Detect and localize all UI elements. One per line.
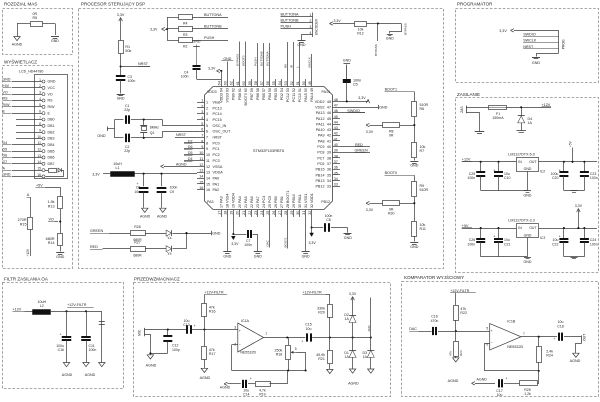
- svg-text:20: 20: [238, 204, 242, 208]
- svg-text:29: 29: [290, 211, 294, 215]
- svg-text:14: 14: [37, 160, 41, 164]
- svg-text:1: 1: [206, 100, 208, 104]
- svg-text:55: 55: [272, 81, 276, 85]
- svg-text:100n: 100n: [590, 176, 598, 180]
- svg-text:61: 61: [238, 88, 242, 92]
- svg-text:15: 15: [206, 182, 210, 186]
- svg-text:R22: R22: [460, 311, 467, 315]
- svg-text:1A: 1A: [528, 121, 533, 125]
- svg-text:DB4: DB4: [48, 143, 55, 147]
- svg-text:3,3V: 3,3V: [366, 130, 374, 134]
- svg-text:64: 64: [218, 81, 222, 85]
- svg-text:AGND: AGND: [62, 373, 73, 377]
- svg-text:62: 62: [232, 88, 236, 92]
- svg-text:10: 10: [206, 153, 210, 157]
- svg-text:R16: R16: [209, 310, 216, 314]
- svg-text:470n: 470n: [431, 319, 439, 323]
- svg-text:+12V: +12V: [26, 248, 30, 256]
- svg-text:3: 3: [201, 110, 203, 114]
- svg-text:−: −: [491, 341, 493, 345]
- svg-text:2: 2: [39, 84, 41, 88]
- svg-text:PC0: PC0: [213, 141, 220, 145]
- svg-text:32: 32: [308, 211, 312, 215]
- svg-text:43: 43: [334, 126, 338, 130]
- svg-text:1A: 1A: [345, 317, 350, 321]
- svg-text:PC14: PC14: [213, 112, 222, 116]
- svg-text:C21: C21: [504, 242, 510, 246]
- svg-text:ZASILANIE: ZASILANIE: [457, 92, 480, 97]
- svg-text:AGND: AGND: [12, 43, 23, 47]
- svg-text:12: 12: [37, 147, 41, 151]
- svg-text:R14: R14: [48, 241, 55, 245]
- svg-text:3,3V: 3,3V: [499, 29, 507, 33]
- svg-text:16: 16: [37, 173, 41, 177]
- svg-text:BYPASS: BYPASS: [374, 44, 378, 56]
- svg-text:41: 41: [334, 137, 338, 141]
- svg-text:R18: R18: [276, 353, 283, 357]
- svg-text:100p: 100p: [172, 348, 180, 352]
- svg-text:PC11: PC11: [292, 93, 296, 102]
- svg-text:NRST: NRST: [176, 133, 187, 137]
- svg-text:PA9: PA9: [318, 134, 325, 138]
- svg-text:54: 54: [280, 88, 284, 92]
- svg-text:R13: R13: [48, 204, 55, 208]
- svg-text:R11: R11: [420, 227, 426, 231]
- svg-text:45: 45: [334, 115, 338, 119]
- svg-text:R24: R24: [546, 354, 553, 358]
- svg-text:PB15: PB15: [315, 168, 324, 172]
- svg-text:25: 25: [268, 204, 272, 208]
- svg-text:GND: GND: [117, 96, 125, 100]
- svg-text:31: 31: [304, 204, 308, 208]
- svg-text:GND: GND: [3, 78, 11, 82]
- svg-text:38: 38: [327, 156, 331, 160]
- svg-text:3,3V: 3,3V: [358, 96, 366, 100]
- svg-text:3,3V: 3,3V: [231, 242, 239, 246]
- svg-text:AGND: AGND: [176, 163, 187, 167]
- svg-text:IC2: IC2: [540, 170, 546, 174]
- svg-text:53: 53: [286, 88, 290, 92]
- svg-text:46: 46: [327, 111, 331, 115]
- svg-text:VDDA: VDDA: [213, 171, 224, 175]
- svg-text:42: 42: [334, 132, 338, 136]
- svg-text:BUTTONA: BUTTONA: [204, 13, 222, 17]
- svg-text:PB6: PB6: [256, 93, 260, 100]
- svg-text:VDD3: VDD3: [220, 93, 224, 103]
- svg-text:3,3V: 3,3V: [366, 208, 374, 212]
- svg-text:BUTTONA: BUTTONA: [266, 50, 270, 66]
- svg-text:VO: VO: [48, 92, 53, 96]
- svg-text:11: 11: [206, 159, 210, 163]
- svg-text:59: 59: [248, 81, 252, 85]
- svg-text:41: 41: [327, 139, 331, 143]
- svg-text:PB13: PB13: [315, 179, 324, 183]
- svg-text:40: 40: [334, 143, 338, 147]
- svg-text:STM32F103RBT6: STM32F103RBT6: [253, 148, 284, 153]
- svg-text:100n: 100n: [244, 243, 252, 247]
- svg-text:OUT: OUT: [583, 334, 587, 341]
- svg-text:23: 23: [256, 204, 260, 208]
- svg-text:+12V-FILTR: +12V-FILTR: [450, 289, 470, 293]
- svg-text:51: 51: [298, 88, 302, 92]
- svg-text:R26: R26: [134, 225, 140, 229]
- svg-text:PB12: PB12: [315, 185, 324, 189]
- svg-text:BOOT1: BOOT1: [385, 87, 398, 91]
- svg-text:RED: RED: [90, 245, 98, 249]
- svg-text:GND: GND: [51, 39, 59, 43]
- svg-text:32: 32: [310, 204, 314, 208]
- svg-text:30: 30: [298, 204, 302, 208]
- svg-text:Q1: Q1: [150, 131, 155, 135]
- svg-text:AGND: AGND: [220, 385, 231, 389]
- svg-text:4: 4: [206, 118, 208, 122]
- svg-text:+: +: [137, 182, 139, 186]
- svg-text:2: 2: [206, 106, 208, 110]
- svg-text:OSC_IN: OSC_IN: [213, 124, 227, 128]
- svg-text:45: 45: [327, 117, 331, 121]
- svg-text:AGND: AGND: [85, 373, 96, 377]
- svg-text:21: 21: [244, 204, 248, 208]
- svg-text:18: 18: [224, 211, 228, 215]
- svg-text:nRST: nRST: [213, 136, 223, 140]
- svg-text:6: 6: [486, 342, 488, 346]
- svg-text:1: 1: [265, 331, 267, 335]
- svg-text:R6: R6: [420, 107, 425, 111]
- svg-text:LM1117DTX-5.0: LM1117DTX-5.0: [508, 152, 535, 156]
- svg-text:GREEN: GREEN: [90, 229, 103, 233]
- svg-text:L2: L2: [40, 304, 44, 308]
- svg-text:24: 24: [262, 204, 266, 208]
- svg-text:SWCLK: SWCLK: [308, 56, 312, 68]
- svg-text:R21: R21: [318, 357, 325, 361]
- svg-text:55: 55: [274, 88, 278, 92]
- svg-text:D6: D6: [3, 154, 8, 158]
- svg-text:PA5: PA5: [244, 196, 248, 203]
- svg-text:GND: GND: [524, 167, 532, 171]
- svg-text:NE5532D: NE5532D: [240, 350, 256, 354]
- svg-text:1: 1: [201, 98, 203, 102]
- svg-text:PA3: PA3: [220, 196, 224, 203]
- svg-text:BUTTONB: BUTTONB: [204, 24, 222, 28]
- svg-text:VCC: VCC: [48, 86, 56, 90]
- svg-text:DB0: DB0: [48, 118, 55, 122]
- svg-text:GND: GND: [223, 57, 231, 61]
- svg-text:39: 39: [334, 149, 338, 153]
- svg-text:C20: C20: [552, 176, 558, 180]
- svg-text:PB11: PB11: [298, 194, 302, 203]
- svg-text:13: 13: [37, 154, 41, 158]
- svg-text:PUSH: PUSH: [281, 25, 292, 29]
- svg-text:47: 47: [334, 103, 338, 107]
- svg-text:R8: R8: [284, 64, 288, 68]
- svg-text:R19: R19: [259, 393, 265, 397]
- svg-text:23: 23: [254, 211, 258, 215]
- svg-text:PA2: PA2: [213, 188, 220, 192]
- svg-text:PC9: PC9: [317, 145, 324, 149]
- svg-text:PB9: PB9: [232, 93, 236, 100]
- svg-text:0R: 0R: [389, 133, 394, 137]
- svg-text:+: +: [493, 235, 495, 239]
- svg-text:VDD2: VDD2: [315, 100, 325, 104]
- svg-text:RS: RS: [3, 97, 9, 101]
- svg-text:AGND: AGND: [448, 379, 459, 383]
- svg-text:6: 6: [39, 109, 41, 113]
- svg-text:13: 13: [199, 169, 203, 173]
- svg-text:22: 22: [250, 204, 254, 208]
- svg-text:PB7: PB7: [250, 93, 254, 100]
- svg-text:R5: R5: [32, 16, 37, 20]
- svg-text:OUT: OUT: [529, 226, 537, 230]
- svg-text:50k: 50k: [125, 49, 131, 53]
- svg-text:BYPASS: BYPASS: [235, 54, 239, 66]
- svg-text:50: 50: [302, 81, 306, 85]
- svg-text:63: 63: [226, 88, 230, 92]
- svg-text:1: 1: [39, 78, 41, 82]
- svg-text:9: 9: [201, 145, 203, 149]
- svg-text:AGND: AGND: [157, 215, 168, 219]
- svg-text:ROZDZIAŁ MAS: ROZDZIAŁ MAS: [4, 1, 37, 6]
- svg-text:PA14: PA14: [321, 90, 330, 94]
- svg-text:26: 26: [274, 204, 278, 208]
- svg-text:17: 17: [220, 204, 224, 208]
- svg-text:GND: GND: [193, 40, 201, 44]
- svg-text:PA13: PA13: [316, 111, 325, 115]
- svg-text:35: 35: [327, 173, 331, 177]
- svg-text:60: 60: [244, 88, 248, 92]
- svg-text:3,3V: 3,3V: [334, 19, 342, 23]
- svg-text:C5: C5: [353, 83, 358, 87]
- svg-text:GND: GND: [212, 232, 221, 236]
- svg-text:13: 13: [206, 171, 210, 175]
- svg-text:57: 57: [260, 81, 264, 85]
- svg-text:PC7: PC7: [317, 156, 324, 160]
- svg-text:FILTR ZASILANIA OA: FILTR ZASILANIA OA: [4, 277, 48, 282]
- svg-text:7: 7: [206, 136, 208, 140]
- svg-text:4: 4: [39, 97, 41, 101]
- svg-text:R/W: R/W: [48, 105, 56, 109]
- svg-text:GND: GND: [97, 134, 106, 138]
- svg-text:PUSH: PUSH: [254, 57, 258, 66]
- svg-text:49: 49: [308, 81, 312, 85]
- svg-text:PC1: PC1: [213, 147, 220, 151]
- svg-text:+12V: +12V: [13, 307, 22, 311]
- svg-text:19: 19: [230, 211, 234, 215]
- svg-text:22p: 22p: [124, 108, 130, 112]
- svg-text:VO: VO: [3, 90, 8, 94]
- svg-text:64: 64: [220, 88, 224, 92]
- svg-text:21: 21: [242, 211, 246, 215]
- svg-text:DB2: DB2: [48, 130, 55, 134]
- svg-text:10: 10: [199, 151, 203, 155]
- svg-text:17: 17: [218, 211, 222, 215]
- svg-text:GND: GND: [48, 80, 56, 84]
- svg-text:VSS1: VSS1: [304, 194, 308, 203]
- svg-text:PA3: PA3: [207, 200, 214, 204]
- svg-text:NRST: NRST: [138, 62, 149, 66]
- svg-text:PC6: PC6: [317, 162, 324, 166]
- svg-text:C13: C13: [183, 323, 189, 327]
- svg-text:9: 9: [39, 128, 41, 132]
- svg-text:49: 49: [310, 88, 314, 92]
- svg-text:PB3: PB3: [274, 93, 278, 100]
- svg-text:AGND: AGND: [348, 381, 359, 385]
- svg-text:53: 53: [284, 81, 288, 85]
- svg-text:R20: R20: [318, 311, 325, 315]
- svg-text:3,3V: 3,3V: [308, 241, 316, 245]
- svg-text:IC3: IC3: [540, 236, 546, 240]
- svg-text:3,3V: 3,3V: [349, 292, 357, 296]
- svg-text:GND: GND: [223, 254, 231, 258]
- svg-text:28: 28: [284, 211, 288, 215]
- svg-text:PA14: PA14: [310, 93, 314, 102]
- svg-text:SWCLK: SWCLK: [523, 39, 537, 43]
- svg-text:GND: GND: [379, 105, 388, 109]
- svg-text:+: +: [553, 337, 555, 341]
- svg-text:PC5: PC5: [268, 196, 272, 203]
- svg-text:680R: 680R: [133, 253, 142, 257]
- svg-text:PC3: PC3: [213, 159, 220, 163]
- svg-text:100n: 100n: [89, 348, 97, 352]
- svg-text:3,3V: 3,3V: [92, 173, 100, 177]
- svg-text:+12V-FILTR: +12V-FILTR: [67, 303, 87, 307]
- svg-text:IC1A: IC1A: [241, 319, 250, 323]
- svg-text:PUSH: PUSH: [204, 36, 215, 40]
- svg-text:DB1: DB1: [48, 124, 55, 128]
- svg-text:56: 56: [268, 88, 272, 92]
- svg-text:60: 60: [242, 81, 246, 85]
- svg-text:+12V-FILTR: +12V-FILTR: [204, 290, 224, 294]
- svg-text:KOMPARATOR WYJŚCIOWY: KOMPARATOR WYJŚCIOWY: [404, 273, 464, 280]
- svg-text:50: 50: [304, 88, 308, 92]
- svg-text:PC13: PC13: [213, 106, 222, 110]
- svg-text:3,3V: 3,3V: [575, 204, 583, 208]
- svg-text:100n: 100n: [128, 79, 136, 83]
- svg-text:39: 39: [327, 151, 331, 155]
- svg-text:AGND: AGND: [200, 376, 211, 380]
- svg-text:PROGRAMATOR: PROGRAMATOR: [457, 1, 493, 6]
- svg-text:BOOT1: BOOT1: [283, 237, 287, 248]
- svg-text:IN: IN: [518, 226, 522, 230]
- svg-text:DB6: DB6: [48, 156, 55, 160]
- svg-text:LCD_HD44780: LCD_HD44780: [19, 69, 43, 73]
- svg-text:5: 5: [295, 347, 297, 351]
- svg-text:C16: C16: [58, 348, 64, 352]
- svg-text:ZAS: ZAS: [460, 106, 464, 113]
- svg-text:PC15: PC15: [213, 118, 222, 122]
- svg-text:11: 11: [199, 157, 203, 161]
- svg-text:ENCODER: ENCODER: [314, 18, 318, 35]
- svg-text:4: 4: [201, 116, 203, 120]
- svg-text:GND: GND: [532, 61, 541, 65]
- svg-text:+: +: [194, 324, 196, 328]
- svg-text:10u: 10u: [134, 190, 140, 194]
- svg-text:LM1117DTX-3.3: LM1117DTX-3.3: [508, 219, 535, 223]
- svg-text:L: L: [296, 66, 300, 68]
- svg-text:RS: RS: [48, 99, 54, 103]
- svg-text:36: 36: [327, 168, 331, 172]
- svg-text:VO: VO: [49, 218, 54, 222]
- svg-text:63: 63: [224, 81, 228, 85]
- svg-text:VDD4: VDD4: [232, 193, 236, 203]
- svg-text:C22: C22: [552, 242, 558, 246]
- svg-text:31: 31: [302, 211, 306, 215]
- svg-text:GND: GND: [410, 245, 419, 249]
- svg-text:44: 44: [334, 120, 338, 124]
- svg-text:+: +: [491, 329, 493, 333]
- svg-text:33: 33: [327, 185, 331, 189]
- svg-text:10: 10: [37, 135, 41, 139]
- svg-text:PA8: PA8: [318, 139, 325, 143]
- svg-text:R3: R3: [183, 33, 188, 37]
- svg-text:22: 22: [248, 211, 252, 215]
- svg-text:6: 6: [201, 128, 203, 132]
- svg-text:8: 8: [39, 122, 41, 126]
- svg-text:RED: RED: [355, 143, 363, 147]
- svg-text:DB5: DB5: [48, 149, 55, 153]
- svg-text:DB7: DB7: [48, 162, 55, 166]
- svg-text:C9: C9: [170, 190, 175, 194]
- svg-text:A: A: [27, 193, 30, 197]
- svg-text:OUT: OUT: [529, 160, 537, 164]
- svg-text:7: 7: [523, 332, 525, 336]
- svg-text:R2: R2: [183, 44, 188, 48]
- svg-text:PB1: PB1: [280, 196, 284, 203]
- svg-text:44: 44: [327, 122, 331, 126]
- svg-text:+: +: [493, 168, 495, 172]
- svg-text:VSS3: VSS3: [226, 93, 230, 102]
- svg-text:8: 8: [201, 139, 203, 143]
- svg-text:BOOT0: BOOT0: [385, 171, 398, 175]
- svg-text:BOOT0: BOOT0: [244, 93, 248, 106]
- svg-text:24: 24: [260, 211, 264, 215]
- svg-text:+: +: [239, 329, 241, 333]
- svg-text:GND: GND: [56, 255, 65, 259]
- svg-text:14: 14: [199, 174, 203, 178]
- svg-text:BOOT1: BOOT1: [286, 191, 290, 204]
- svg-text:47: 47: [327, 105, 331, 109]
- svg-text:R27: R27: [134, 241, 140, 245]
- svg-text:19: 19: [232, 204, 236, 208]
- svg-text:PROCESOR STERUJĄCY DSP: PROCESOR STERUJĄCY DSP: [81, 1, 145, 6]
- svg-text:34: 34: [327, 179, 331, 183]
- svg-text:BOOT0: BOOT0: [241, 55, 245, 66]
- svg-text:58: 58: [256, 88, 260, 92]
- svg-text:1,2k: 1,2k: [524, 392, 531, 396]
- svg-text:58: 58: [254, 81, 258, 85]
- svg-text:100n: 100n: [467, 242, 475, 246]
- svg-text:PB10: PB10: [292, 194, 296, 203]
- svg-text:GND: GND: [344, 236, 352, 240]
- svg-text:28: 28: [286, 204, 290, 208]
- svg-text:29: 29: [292, 204, 296, 208]
- svg-text:3: 3: [206, 112, 208, 116]
- svg-text:38: 38: [334, 154, 338, 158]
- svg-text:510R: 510R: [420, 188, 429, 192]
- svg-text:AGND: AGND: [477, 378, 488, 382]
- svg-text:26: 26: [272, 211, 276, 215]
- svg-text:5: 5: [206, 124, 208, 128]
- svg-text:27: 27: [278, 211, 282, 215]
- svg-text:100n: 100n: [590, 242, 598, 246]
- svg-text:AGND: AGND: [140, 215, 151, 219]
- svg-text:35: 35: [334, 171, 338, 175]
- svg-text:10u: 10u: [497, 393, 503, 397]
- svg-text:IN: IN: [518, 160, 522, 164]
- svg-text:10u: 10u: [306, 327, 312, 331]
- svg-text:PB8: PB8: [238, 93, 242, 100]
- svg-text:43: 43: [327, 128, 331, 132]
- svg-text:PA12: PA12: [316, 117, 325, 121]
